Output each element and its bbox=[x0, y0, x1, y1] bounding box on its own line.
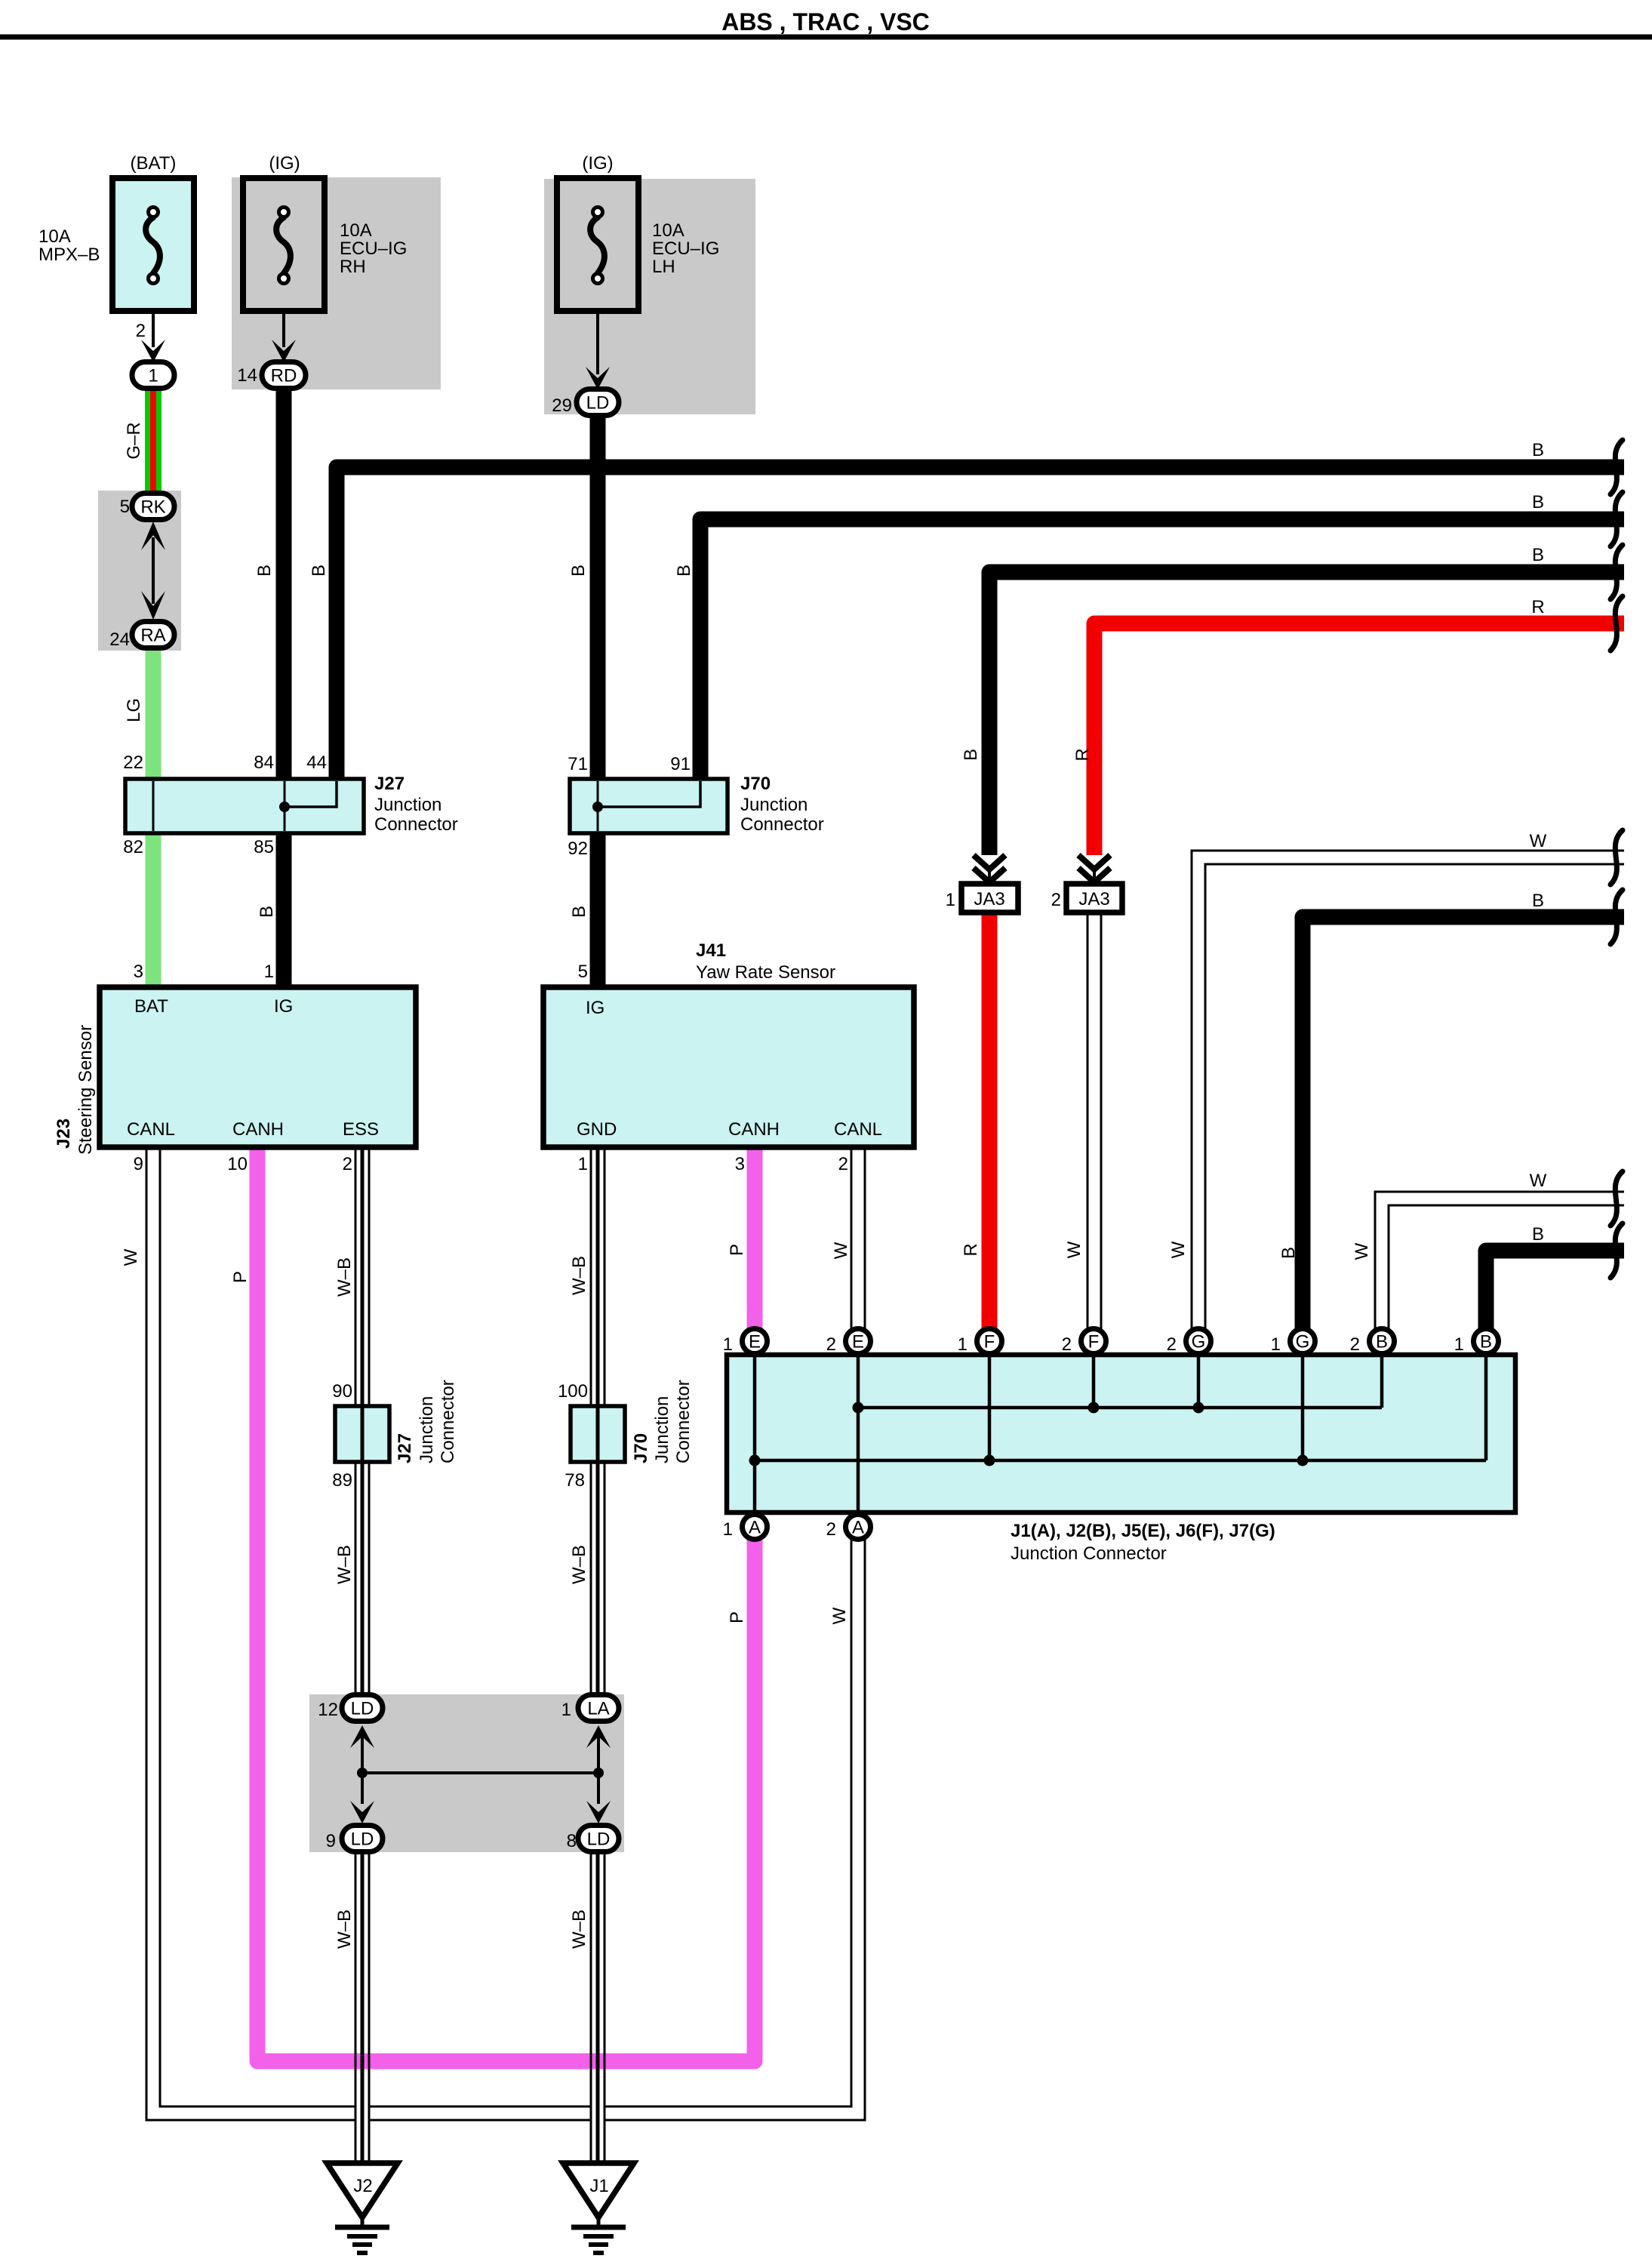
svg-text:F: F bbox=[984, 1332, 995, 1352]
svg-text:1: 1 bbox=[561, 1700, 571, 1720]
connector JA3 pin 2 bbox=[1078, 855, 1110, 869]
svg-text:Junction: Junction bbox=[652, 1396, 672, 1463]
svg-text:LD: LD bbox=[586, 393, 610, 414]
pin 2B bbox=[1370, 1329, 1395, 1354]
wire break symbol at right edge (B y=1657) bbox=[1610, 1223, 1623, 1278]
wire W J23 CANL to J5 pin 2A (bottom route) bbox=[153, 1146, 858, 2113]
svg-text:2: 2 bbox=[343, 1154, 352, 1174]
svg-text:B: B bbox=[257, 906, 277, 918]
svg-text:10A: 10A bbox=[652, 220, 684, 241]
svg-text:24: 24 bbox=[109, 629, 130, 650]
svg-text:84: 84 bbox=[254, 752, 274, 773]
wire R to JA3 pin 2 from right edge bbox=[1094, 623, 1624, 855]
junction connector J70 bbox=[570, 779, 728, 833]
svg-text:W–B: W–B bbox=[334, 1909, 355, 1949]
pin 1F bbox=[977, 1329, 1002, 1354]
svg-text:W: W bbox=[829, 1607, 850, 1624]
svg-text:B: B bbox=[1376, 1332, 1388, 1352]
connector LD pin 29 bbox=[577, 389, 619, 416]
svg-text:P: P bbox=[230, 1271, 251, 1283]
svg-text:71: 71 bbox=[568, 754, 588, 774]
svg-text:W: W bbox=[1168, 1241, 1189, 1258]
svg-text:W–B: W–B bbox=[334, 1545, 355, 1584]
wire LG from RA to J23 BAT bbox=[146, 647, 162, 989]
svg-text:J41: J41 bbox=[696, 940, 726, 961]
svg-text:10: 10 bbox=[227, 1154, 248, 1174]
svg-text:J70: J70 bbox=[631, 1433, 651, 1463]
wire W-B connector LD9 to ground J2 bbox=[355, 1848, 371, 2168]
wire W from right edge to J2 pin 2B bbox=[1382, 1199, 1624, 1331]
svg-text:LD: LD bbox=[351, 1829, 374, 1850]
svg-text:LA: LA bbox=[587, 1699, 609, 1719]
wire B fuse ECU-IG RH (RD) to J27 pin 84 bbox=[276, 389, 292, 780]
svg-text:W: W bbox=[1530, 1171, 1547, 1191]
svg-text:IG: IG bbox=[274, 996, 293, 1017]
svg-text:5: 5 bbox=[120, 497, 130, 517]
svg-text:W–B: W–B bbox=[334, 1257, 355, 1297]
svg-text:B: B bbox=[1532, 492, 1544, 512]
svg-text:W–B: W–B bbox=[569, 1256, 589, 1295]
connector RK pin 5 bbox=[132, 494, 174, 520]
svg-text:78: 78 bbox=[565, 1470, 585, 1491]
svg-text:B: B bbox=[568, 565, 589, 577]
steering sensor J23 box bbox=[100, 987, 416, 1147]
svg-text:(IG): (IG) bbox=[269, 153, 300, 174]
wire W from right edge to J7 pin 2G bbox=[1198, 857, 1624, 1331]
ground J1 bbox=[563, 2163, 634, 2217]
svg-text:MPX–B: MPX–B bbox=[38, 245, 100, 265]
svg-text:1: 1 bbox=[264, 962, 274, 982]
svg-text:Steering Sensor: Steering Sensor bbox=[75, 1025, 96, 1155]
wire P J23 CANH to J1 pin 1A (bottom route) bbox=[257, 1146, 755, 2061]
svg-text:CANL: CANL bbox=[127, 1119, 175, 1140]
svg-text:89: 89 bbox=[332, 1470, 352, 1491]
pin 1A bbox=[743, 1515, 768, 1540]
svg-text:85: 85 bbox=[254, 837, 274, 857]
svg-text:J27: J27 bbox=[395, 1433, 415, 1463]
wire B J70 pin 92 to J41 IG bbox=[590, 832, 606, 989]
svg-text:JA3: JA3 bbox=[1078, 889, 1109, 909]
title rule bbox=[0, 35, 1652, 40]
svg-text:Junction: Junction bbox=[374, 795, 441, 815]
svg-text:W: W bbox=[1530, 831, 1547, 851]
svg-text:12: 12 bbox=[318, 1700, 338, 1720]
svg-text:R: R bbox=[1531, 597, 1544, 617]
connector JA3 pin 1 bbox=[974, 855, 1005, 869]
svg-text:G: G bbox=[1296, 1332, 1310, 1352]
svg-text:E: E bbox=[749, 1332, 761, 1352]
svg-text:LG: LG bbox=[124, 698, 144, 722]
svg-text:JA3: JA3 bbox=[974, 889, 1004, 909]
svg-text:92: 92 bbox=[568, 839, 588, 859]
svg-text:W: W bbox=[121, 1248, 141, 1266]
gray background panel for RK/RA connectors bbox=[98, 491, 181, 651]
svg-text:P: P bbox=[727, 1611, 747, 1623]
pin 1E bbox=[743, 1329, 768, 1354]
fuse 10A ECU-IG RH bbox=[243, 178, 325, 311]
wire B to JA3 pin 1 from right edge bbox=[989, 572, 1624, 855]
svg-text:LD: LD bbox=[587, 1829, 611, 1850]
wire R JA3 pin 1 to J6 pin 1F bbox=[982, 911, 998, 1331]
svg-text:100: 100 bbox=[558, 1381, 588, 1402]
svg-text:1: 1 bbox=[946, 890, 955, 910]
svg-text:29: 29 bbox=[552, 395, 572, 416]
wire P J41 CANH to J5 pin 1E bbox=[747, 1146, 763, 1331]
svg-text:B: B bbox=[309, 565, 329, 577]
svg-text:Connector: Connector bbox=[438, 1380, 458, 1463]
svg-text:J23: J23 bbox=[54, 1119, 74, 1149]
connector RD pin 14 bbox=[262, 362, 306, 389]
svg-text:B: B bbox=[569, 906, 589, 918]
svg-text:1: 1 bbox=[723, 1334, 733, 1355]
svg-text:14: 14 bbox=[237, 365, 257, 386]
pin 2E bbox=[846, 1329, 871, 1354]
svg-text:B: B bbox=[1532, 440, 1544, 460]
svg-text:P: P bbox=[727, 1244, 747, 1256]
svg-text:B: B bbox=[254, 565, 275, 577]
junction connector J1(A) J2(B) J5(E) J6(F) J7(G) box bbox=[727, 1355, 1515, 1513]
RK-RA mating arrows bbox=[152, 537, 155, 604]
svg-text:Connector: Connector bbox=[740, 814, 824, 835]
svg-text:ESS: ESS bbox=[343, 1119, 379, 1140]
svg-text:Connector: Connector bbox=[673, 1380, 694, 1463]
svg-text:2: 2 bbox=[1350, 1334, 1360, 1355]
wire W J41 CANL to J5 pin 2E bbox=[851, 1146, 866, 1331]
svg-text:2: 2 bbox=[826, 1334, 836, 1355]
wire G-R from connector 1 to RK bbox=[145, 388, 162, 495]
gray background panel for ECU-IG LH fuse bbox=[544, 179, 755, 414]
connector RA pin 24 bbox=[132, 622, 174, 648]
svg-text:1: 1 bbox=[1271, 1334, 1281, 1355]
gray background panel for LD/LA connectors bbox=[309, 1694, 624, 1852]
svg-text:8: 8 bbox=[567, 1831, 577, 1851]
internal wiring of junction connector bbox=[753, 1357, 757, 1510]
svg-text:RA: RA bbox=[140, 626, 165, 646]
svg-text:22: 22 bbox=[123, 752, 143, 773]
svg-text:LH: LH bbox=[652, 257, 675, 277]
wire break symbol at right edge (B y=619) bbox=[1610, 440, 1623, 494]
wire break symbol at right edge (B y=1215) bbox=[1610, 890, 1623, 944]
svg-text:BAT: BAT bbox=[134, 996, 168, 1017]
connector LD pin 8 bbox=[578, 1826, 619, 1852]
svg-text:B: B bbox=[1480, 1332, 1492, 1352]
svg-text:10A: 10A bbox=[340, 220, 372, 241]
wire stub fuse MPX-B to connector 1 bbox=[152, 311, 155, 347]
svg-text:CANL: CANL bbox=[834, 1119, 882, 1140]
wire B from J27 pin 44 to right edge bbox=[337, 467, 1624, 780]
wire W-B J23 ESS to connector LD12 bbox=[355, 1146, 371, 1700]
svg-text:ABS , TRAC , VSC: ABS , TRAC , VSC bbox=[721, 8, 930, 35]
svg-text:R: R bbox=[1072, 748, 1093, 761]
svg-text:J27: J27 bbox=[374, 774, 405, 794]
svg-text:W: W bbox=[1064, 1241, 1084, 1258]
svg-text:F: F bbox=[1088, 1332, 1100, 1352]
svg-text:J70: J70 bbox=[740, 774, 771, 794]
svg-text:E: E bbox=[852, 1332, 864, 1352]
wire B from right edge to J7 pin 1G bbox=[1303, 917, 1624, 1331]
wire break symbol at right edge (B y=688) bbox=[1610, 492, 1623, 546]
pin 2G bbox=[1186, 1329, 1211, 1354]
svg-text:J1(A), J2(B), J5(E), J6(F), J7: J1(A), J2(B), J5(E), J6(F), J7(G) bbox=[1011, 1521, 1275, 1541]
svg-text:ECU–IG: ECU–IG bbox=[340, 238, 407, 259]
pin 2F bbox=[1081, 1329, 1106, 1354]
pin 1B bbox=[1474, 1329, 1499, 1354]
svg-text:G: G bbox=[1192, 1332, 1206, 1352]
svg-text:1: 1 bbox=[578, 1154, 588, 1174]
svg-text:Junction: Junction bbox=[417, 1396, 437, 1463]
svg-text:A: A bbox=[749, 1518, 761, 1538]
svg-text:B: B bbox=[961, 749, 981, 761]
W-B wire strokes over pink crossing (ESS) bbox=[355, 2048, 357, 2074]
svg-text:CANH: CANH bbox=[232, 1119, 284, 1140]
svg-text:RH: RH bbox=[340, 257, 366, 277]
svg-text:B: B bbox=[1532, 1224, 1544, 1245]
pin 1G bbox=[1291, 1329, 1315, 1354]
svg-text:44: 44 bbox=[306, 752, 327, 773]
svg-text:B: B bbox=[1278, 1247, 1299, 1259]
svg-text:IG: IG bbox=[586, 998, 605, 1018]
wire stub fuse ECU-IG LH to LD bbox=[596, 311, 599, 374]
svg-text:RD: RD bbox=[271, 366, 297, 386]
wire W JA3 pin 2 to J6 pin 2F bbox=[1087, 911, 1103, 1331]
svg-text:LD: LD bbox=[351, 1699, 374, 1719]
svg-text:W–B: W–B bbox=[569, 1545, 589, 1584]
wire B fuse ECU-IG LH (LD) to J70 pin 71 bbox=[590, 415, 606, 780]
W-B wire strokes over pink crossing (GND) bbox=[590, 2048, 592, 2074]
svg-text:9: 9 bbox=[134, 1154, 143, 1174]
pin 2A bbox=[846, 1515, 871, 1540]
svg-text:9: 9 bbox=[326, 1831, 336, 1851]
connector 1 (MPX-B output) bbox=[132, 362, 174, 389]
wire W-B J41 GND to connector LA1 bbox=[590, 1146, 606, 1700]
gray background panel for ECU-IG RH fuse bbox=[232, 177, 441, 389]
junction connector J27 bbox=[125, 779, 364, 833]
svg-text:82: 82 bbox=[123, 837, 143, 857]
wire B J27 pin 85 to J23 IG bbox=[276, 832, 292, 989]
svg-text:1: 1 bbox=[723, 1519, 733, 1540]
svg-text:5: 5 bbox=[578, 962, 588, 982]
fuse 10A ECU-IG LH bbox=[557, 178, 638, 311]
svg-text:(IG): (IG) bbox=[582, 153, 613, 174]
junction connector J27 (90/89) bbox=[335, 1406, 389, 1462]
internal link LD12/LA1 to LD9/LD8 bbox=[361, 1736, 364, 1773]
svg-text:2: 2 bbox=[838, 1154, 848, 1174]
svg-text:RK: RK bbox=[140, 497, 165, 518]
svg-text:Yaw Rate Sensor: Yaw Rate Sensor bbox=[696, 962, 835, 983]
svg-text:Junction: Junction bbox=[740, 795, 808, 815]
svg-text:3: 3 bbox=[735, 1154, 745, 1174]
svg-text:W: W bbox=[831, 1242, 851, 1259]
svg-text:2: 2 bbox=[1051, 890, 1061, 910]
svg-text:GND: GND bbox=[577, 1119, 617, 1140]
wire stub fuse ECU-IG RH to RD bbox=[282, 311, 285, 347]
connector LA pin 1 bbox=[578, 1695, 619, 1722]
wire break symbol at right edge (W y=1136) bbox=[1610, 830, 1623, 885]
svg-text:J1: J1 bbox=[589, 2176, 608, 2196]
svg-text:(BAT): (BAT) bbox=[131, 153, 177, 174]
wire break symbol at right edge (R y=826) bbox=[1610, 596, 1623, 651]
svg-text:10A: 10A bbox=[38, 226, 71, 247]
svg-text:B: B bbox=[1532, 545, 1544, 565]
junction connector J70 (100/78) bbox=[571, 1406, 625, 1462]
svg-text:J2: J2 bbox=[353, 2176, 372, 2196]
connector LD pin 12 bbox=[342, 1695, 383, 1722]
svg-text:B: B bbox=[1532, 891, 1544, 911]
wire break symbol at right edge (B y=758) bbox=[1610, 545, 1623, 599]
svg-text:2: 2 bbox=[1062, 1334, 1072, 1355]
svg-text:90: 90 bbox=[332, 1381, 352, 1402]
svg-text:1: 1 bbox=[1454, 1334, 1464, 1355]
connector LD pin 9 bbox=[342, 1826, 383, 1852]
svg-text:CANH: CANH bbox=[728, 1119, 780, 1140]
svg-text:3: 3 bbox=[134, 962, 143, 982]
ground J2 bbox=[327, 2163, 398, 2217]
svg-text:B: B bbox=[674, 565, 694, 577]
wire B from J70 pin 91 to right edge bbox=[700, 519, 1624, 780]
svg-text:2: 2 bbox=[1167, 1334, 1177, 1355]
svg-text:A: A bbox=[852, 1518, 864, 1538]
wire W-B connector LD8 to ground J1 bbox=[590, 1848, 606, 2168]
svg-text:W: W bbox=[1352, 1242, 1372, 1260]
svg-text:2: 2 bbox=[136, 321, 146, 341]
fuse 10A MPX-B bbox=[112, 178, 194, 311]
yaw rate sensor J41 box bbox=[543, 987, 914, 1147]
svg-text:G–R: G–R bbox=[124, 422, 144, 459]
svg-text:Connector: Connector bbox=[374, 814, 458, 835]
svg-text:1: 1 bbox=[958, 1334, 968, 1355]
svg-text:ECU–IG: ECU–IG bbox=[652, 238, 719, 259]
svg-text:2: 2 bbox=[826, 1519, 836, 1540]
svg-text:R: R bbox=[961, 1243, 981, 1256]
wire B from right edge to J2 pin 1B bbox=[1486, 1251, 1624, 1331]
svg-text:Junction Connector: Junction Connector bbox=[1011, 1543, 1167, 1564]
svg-text:W–B: W–B bbox=[569, 1909, 589, 1949]
svg-text:91: 91 bbox=[670, 754, 691, 774]
wire break symbol at right edge (W y=1588) bbox=[1610, 1171, 1623, 1226]
svg-text:1: 1 bbox=[148, 366, 158, 386]
